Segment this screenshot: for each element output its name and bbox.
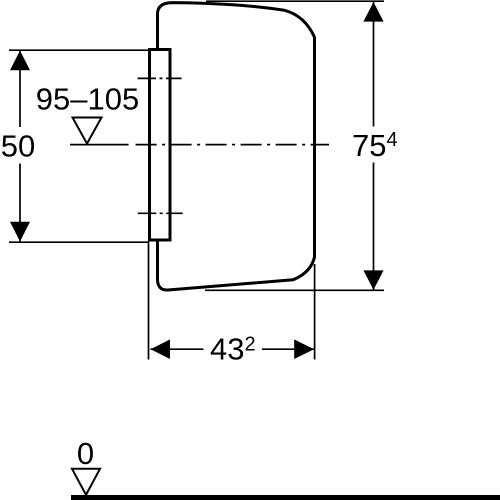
- svg-text:50: 50: [1, 129, 35, 164]
- svg-text:95–105: 95–105: [36, 81, 139, 116]
- svg-text:0: 0: [77, 436, 94, 471]
- svg-text:432: 432: [210, 331, 256, 366]
- svg-text:754: 754: [352, 128, 398, 163]
